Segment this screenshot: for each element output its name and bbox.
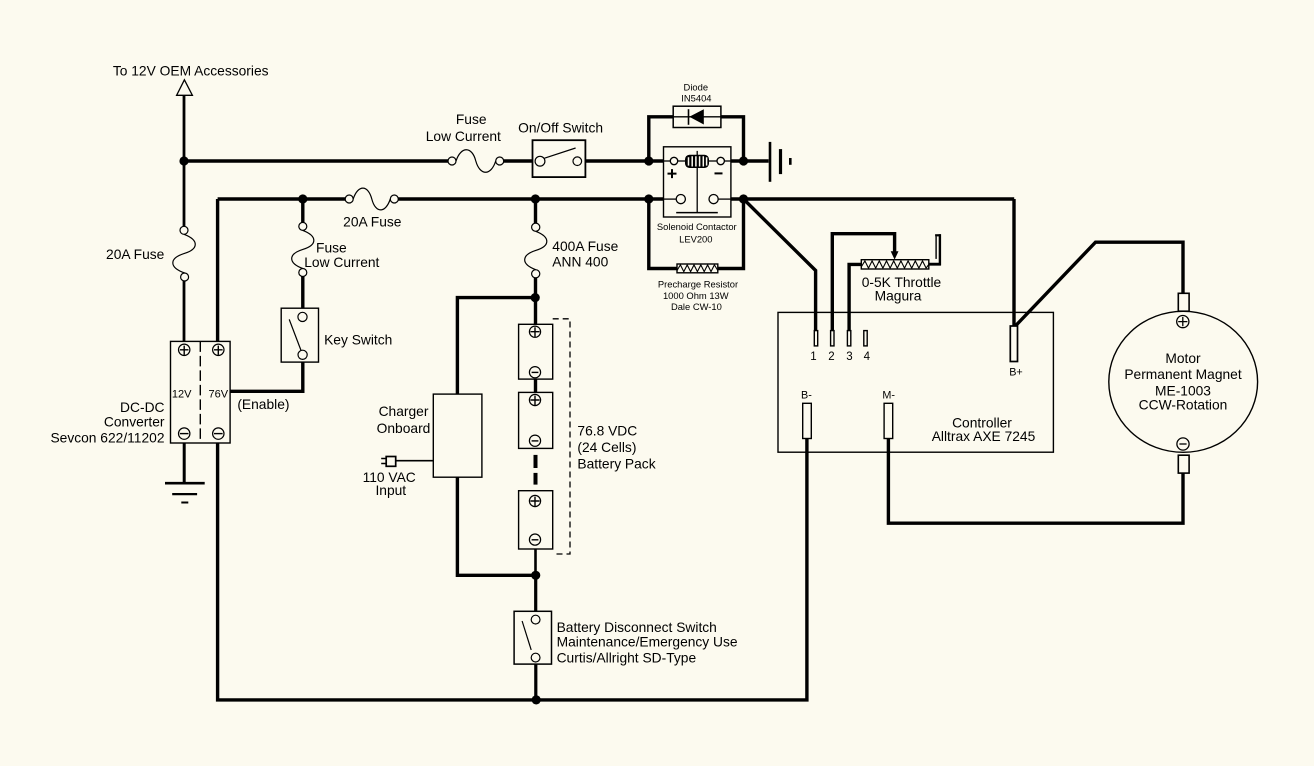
svg-text:Magura: Magura — [875, 288, 922, 303]
svg-text:Precharge Resistor: Precharge Resistor — [658, 278, 738, 289]
svg-text:(Enable): (Enable) — [237, 397, 289, 412]
svg-text:ME-1003: ME-1003 — [1155, 383, 1211, 398]
svg-text:Onboard: Onboard — [377, 421, 431, 436]
svg-text:Battery Disconnect Switch: Battery Disconnect Switch — [557, 620, 717, 635]
svg-text:1: 1 — [810, 351, 816, 363]
svg-text:Permanent Magnet: Permanent Magnet — [1124, 367, 1242, 382]
svg-text:400A Fuse: 400A Fuse — [552, 239, 618, 254]
svg-text:Sevcon 622/11202: Sevcon 622/11202 — [50, 431, 164, 446]
svg-text:Battery Pack: Battery Pack — [577, 457, 655, 472]
svg-text:IN5404: IN5404 — [681, 93, 711, 104]
svg-text:Key Switch: Key Switch — [324, 333, 392, 348]
svg-text:(24 Cells): (24 Cells) — [577, 440, 636, 455]
svg-text:Fuse: Fuse — [456, 112, 487, 127]
svg-text:Fuse: Fuse — [316, 240, 347, 255]
svg-text:2: 2 — [828, 351, 834, 363]
svg-text:3: 3 — [846, 351, 852, 363]
svg-text:4: 4 — [864, 351, 871, 363]
svg-text:20A Fuse: 20A Fuse — [343, 215, 402, 230]
svg-text:Motor: Motor — [1165, 351, 1201, 366]
svg-text:Charger: Charger — [379, 404, 429, 419]
svg-text:M-: M- — [882, 389, 895, 401]
svg-text:12V: 12V — [172, 388, 192, 400]
svg-text:B+: B+ — [1009, 366, 1023, 378]
svg-text:Converter: Converter — [104, 415, 165, 430]
svg-text:B-: B- — [801, 389, 812, 401]
svg-text:Alltrax AXE 7245: Alltrax AXE 7245 — [932, 429, 1036, 444]
svg-text:Dale CW-10: Dale CW-10 — [671, 301, 722, 312]
svg-text:Maintenance/Emergency Use: Maintenance/Emergency Use — [557, 635, 738, 650]
svg-text:DC-DC: DC-DC — [120, 400, 164, 415]
svg-text:On/Off Switch: On/Off Switch — [518, 120, 603, 135]
svg-text:Solenoid Contactor: Solenoid Contactor — [657, 221, 737, 232]
svg-text:76V: 76V — [209, 388, 229, 400]
svg-text:ANN 400: ANN 400 — [552, 255, 608, 270]
svg-text:1000 Ohm 13W: 1000 Ohm 13W — [663, 290, 729, 301]
svg-text:Curtis/Allright SD-Type: Curtis/Allright SD-Type — [557, 650, 697, 665]
svg-text:LEV200: LEV200 — [679, 233, 712, 244]
svg-text:To 12V OEM Accessories: To 12V OEM Accessories — [113, 64, 269, 79]
svg-text:76.8 VDC: 76.8 VDC — [577, 424, 637, 439]
svg-text:Low Current: Low Current — [426, 129, 501, 144]
svg-text:Diode: Diode — [684, 81, 709, 92]
svg-text:20A Fuse: 20A Fuse — [106, 247, 165, 262]
svg-text:CCW-Rotation: CCW-Rotation — [1139, 398, 1228, 413]
svg-text:Input: Input — [375, 483, 406, 498]
svg-text:Low Current: Low Current — [304, 255, 379, 270]
